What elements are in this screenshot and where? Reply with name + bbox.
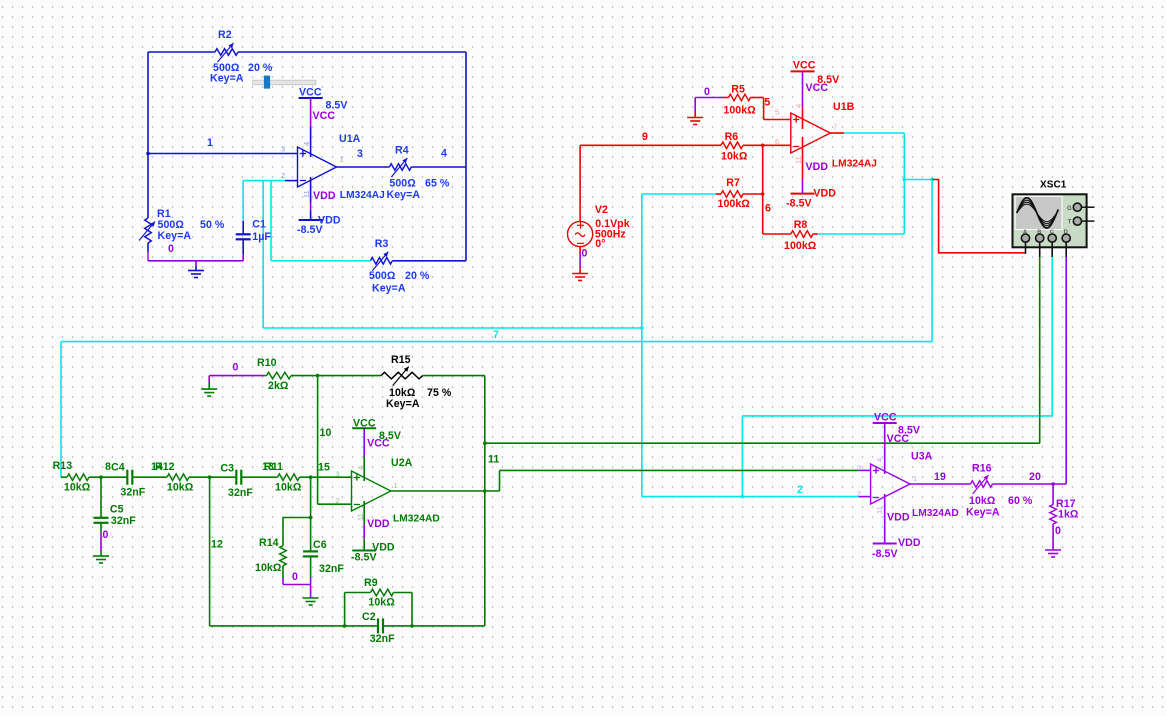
svg-text:4: 4: [794, 104, 803, 108]
scope waveform: [1017, 198, 1059, 228]
wire node12 riser: [209, 477, 211, 626]
svg-text:R5: R5: [731, 84, 745, 96]
wire node10 riser: [318, 376, 352, 505]
svg-text:4: 4: [875, 458, 884, 462]
wire U3A -input stub: [859, 496, 871, 498]
wire net2 U1A minus line: [243, 180, 297, 182]
resistor R14: [280, 518, 287, 579]
wire net2 riser to R3 row: [270, 181, 272, 261]
svg-text:R8: R8: [794, 219, 808, 231]
svg-text:V2: V2: [595, 204, 608, 216]
svg-text:19: 19: [934, 471, 946, 483]
svg-text:Key=A: Key=A: [372, 283, 406, 295]
scope terminal G: [1067, 203, 1095, 212]
svg-text:0: 0: [103, 529, 109, 541]
capacitor C3: [235, 470, 237, 485]
svg-text:1kΩ: 1kΩ: [1058, 509, 1079, 521]
junction scope B tap: [483, 441, 487, 445]
svg-text:U3A: U3A: [911, 451, 933, 463]
label VDD U2A: [351, 542, 395, 564]
wire node6 vertical: [762, 145, 764, 234]
svg-text:15: 15: [318, 462, 330, 474]
svg-text:10: 10: [320, 427, 332, 439]
VCC pin wire U1B: [802, 71, 804, 129]
wire U2A output: [391, 490, 500, 492]
wire net 0 bottom purple: [148, 260, 243, 262]
svg-text:C6: C6: [313, 539, 327, 551]
wire net2 scope C riser: [741, 416, 743, 497]
svg-text:Key=A: Key=A: [386, 398, 420, 410]
svg-text:4: 4: [302, 142, 311, 146]
wire R13 left: [61, 476, 67, 478]
svg-text:-8.5V: -8.5V: [786, 198, 812, 210]
svg-text:20 %: 20 %: [248, 62, 273, 74]
wire C3 to R11: [242, 476, 277, 478]
svg-text:10kΩ: 10kΩ: [969, 495, 996, 507]
svg-text:VCC: VCC: [353, 418, 376, 430]
label C6: [313, 539, 344, 575]
svg-text:R14: R14: [259, 537, 279, 549]
svg-text:R2: R2: [218, 29, 232, 41]
wire R3 left cyan to net2 riser: [271, 260, 370, 262]
svg-text:9: 9: [642, 131, 648, 143]
label R15: [386, 354, 452, 410]
ground R17: [1045, 549, 1061, 551]
svg-text:11: 11: [875, 506, 884, 514]
svg-text:VDD: VDD: [806, 161, 829, 173]
label VDD U3A: [872, 537, 921, 560]
svg-text:1µF: 1µF: [252, 231, 271, 243]
svg-text:R15: R15: [391, 354, 411, 366]
VDD bar U1B: [791, 193, 815, 195]
svg-text:R4: R4: [395, 145, 409, 157]
svg-text:32nF: 32nF: [111, 515, 136, 527]
svg-text:32nF: 32nF: [370, 633, 395, 645]
resistor R13: [67, 474, 89, 481]
resistor R8: [791, 231, 813, 238]
wire U3A output to R16: [910, 483, 971, 485]
resistor R7: [716, 191, 763, 198]
svg-text:0: 0: [704, 86, 710, 98]
wire U3A +input stub: [859, 469, 871, 471]
label R10: [257, 357, 289, 392]
junction node 15: [309, 475, 313, 479]
svg-text:C3: C3: [220, 463, 234, 475]
svg-text:B: B: [1037, 230, 1041, 236]
resistor R16 (potentiometer): [971, 475, 993, 494]
svg-text:R12: R12: [155, 461, 175, 473]
capacitor C5: [94, 477, 109, 556]
svg-text:500Ω: 500Ω: [369, 270, 396, 282]
label R11 with net 13: [262, 461, 302, 494]
wire R8 right cyan: [813, 233, 905, 235]
VDD bar U3A: [873, 543, 897, 545]
scope terminal D with stub: [1062, 230, 1070, 257]
label C3: [220, 463, 253, 500]
VDD pin wire U1A: [310, 177, 312, 220]
wire node11 long horizontal to U3A: [500, 469, 859, 471]
svg-text:Key=A: Key=A: [210, 73, 244, 85]
wire node15 to R14: [283, 517, 311, 519]
svg-text:D: D: [1064, 230, 1068, 236]
label R1: [157, 208, 225, 242]
svg-text:1: 1: [913, 474, 917, 483]
svg-text:11: 11: [794, 156, 803, 164]
capacitor C1: [236, 181, 251, 261]
VCC bar U3A: [873, 422, 897, 424]
resistor R2 (potentiometer) on top wire: [215, 43, 238, 62]
svg-text:Key=A: Key=A: [158, 230, 192, 242]
wire net2 to U3A -input: [642, 496, 859, 498]
wire U1A output to R4: [337, 166, 390, 168]
wire net2 cyan to R7: [642, 193, 716, 195]
scope terminal T: [1068, 217, 1095, 226]
junction node 10: [316, 374, 320, 378]
oscilloscope XSC1: [1013, 194, 1087, 247]
wire scope D vertical: [1065, 257, 1067, 484]
svg-text:R7: R7: [726, 177, 740, 189]
wire net0 under R14 C6: [283, 578, 311, 598]
wire net 1 to U1A +input: [148, 153, 298, 155]
svg-text:10kΩ: 10kΩ: [368, 597, 395, 609]
op-amp U1A: [298, 147, 337, 187]
svg-text:0: 0: [168, 243, 174, 255]
junction net7 at x932: [930, 178, 934, 182]
svg-text:VDD: VDD: [313, 190, 336, 202]
op-amp U3A: [871, 464, 910, 504]
svg-text:LM324AD: LM324AD: [912, 508, 959, 519]
svg-text:2: 2: [857, 489, 861, 498]
svg-text:7: 7: [833, 123, 837, 132]
svg-text:3: 3: [857, 463, 861, 472]
svg-text:VCC: VCC: [874, 412, 897, 424]
label R8: [784, 219, 817, 252]
label R3: [369, 238, 430, 295]
source V2: [568, 145, 593, 246]
junction node 12: [208, 475, 212, 479]
wire net1 top horizontal R2 to right corner: [238, 51, 466, 53]
VDD pin wire U3A: [884, 494, 886, 544]
svg-text:6: 6: [765, 203, 771, 215]
svg-text:VCC: VCC: [299, 87, 322, 99]
svg-text:1: 1: [207, 137, 213, 149]
wire net0 to R10: [209, 376, 266, 390]
wire net1 left vertical: [147, 52, 149, 218]
label R9: [364, 577, 395, 609]
wire R13 to C4: [89, 476, 126, 478]
svg-text:VCC: VCC: [367, 438, 390, 450]
svg-text:VCC: VCC: [793, 60, 816, 72]
wire net1 top horizontal to R2 left: [148, 51, 215, 53]
label R17: [1056, 498, 1079, 521]
svg-text:-8.5V: -8.5V: [351, 551, 377, 563]
op-amp U2A: [352, 471, 391, 511]
svg-text:C2: C2: [362, 611, 376, 623]
svg-text:C: C: [1050, 230, 1054, 236]
wire net7 long horizontal: [61, 341, 932, 343]
capacitor C6: [303, 518, 318, 579]
ground C5: [93, 555, 109, 557]
svg-text:-8.5V: -8.5V: [872, 548, 898, 560]
VDD bar U2A: [352, 550, 376, 552]
wire R1 bottom lead: [147, 243, 149, 261]
capacitor C2: [377, 618, 379, 633]
svg-text:10kΩ: 10kΩ: [64, 482, 91, 494]
ground V2: [572, 273, 588, 275]
VCC pin wire U1A: [310, 98, 312, 157]
ground R5: [687, 117, 703, 119]
svg-text:50 %: 50 %: [200, 219, 225, 231]
svg-text:0°: 0°: [595, 238, 605, 250]
wire feedback riser: [484, 376, 486, 626]
svg-text:2: 2: [336, 496, 340, 505]
label R5: [723, 84, 756, 117]
wire node10 to R15: [318, 375, 381, 377]
svg-text:100kΩ: 100kΩ: [784, 240, 817, 252]
wire R6 to U1B -input: [743, 144, 791, 146]
svg-text:60 %: 60 %: [1008, 495, 1033, 507]
wire scope B horizontal: [485, 442, 1040, 444]
svg-text:1: 1: [394, 481, 398, 490]
svg-text:VDD: VDD: [898, 537, 921, 549]
junction R9 left: [343, 624, 347, 628]
svg-text:20: 20: [1029, 471, 1041, 483]
wire net 5 R5 to U1B +input: [751, 98, 791, 120]
wire R12 to C3: [189, 476, 235, 478]
svg-text:20 %: 20 %: [405, 270, 430, 282]
VCC bar U1A: [299, 97, 323, 99]
label C5: [110, 504, 136, 528]
svg-text:2kΩ: 2kΩ: [268, 380, 289, 392]
svg-text:R3: R3: [375, 238, 389, 250]
svg-text:Key=A: Key=A: [966, 507, 1000, 519]
svg-text:65 %: 65 %: [425, 178, 450, 190]
wire net2 long horizontal: [263, 327, 642, 329]
label VCC U1A: [299, 87, 348, 112]
scope terminal A with stub: [1021, 230, 1029, 254]
svg-text:U1A: U1A: [339, 133, 361, 145]
svg-text:LM324AD: LM324AD: [393, 514, 440, 525]
svg-text:VDD: VDD: [813, 188, 836, 200]
junction node15 R14/C6: [309, 516, 313, 520]
svg-text:500Ω: 500Ω: [389, 178, 416, 190]
svg-text:R16: R16: [972, 463, 992, 475]
svg-text:10kΩ: 10kΩ: [255, 562, 282, 574]
svg-text:11: 11: [488, 454, 499, 466]
svg-text:R13: R13: [53, 460, 73, 472]
svg-text:VCC: VCC: [313, 110, 336, 122]
svg-text:1: 1: [340, 155, 344, 164]
label V2: [595, 204, 630, 250]
label VDD U1A: [297, 215, 341, 237]
wire node15 riser down: [310, 477, 312, 517]
slider control for R2: [253, 76, 316, 89]
label R12 with net 14: [151, 461, 194, 494]
svg-text:32nF: 32nF: [319, 563, 344, 575]
scope terminal B with stub: [1036, 230, 1044, 257]
VDD bar U1A: [299, 219, 323, 221]
svg-text:10kΩ: 10kΩ: [275, 482, 302, 494]
svg-text:C5: C5: [110, 504, 124, 516]
svg-text:R9: R9: [364, 577, 378, 589]
capacitor C4: [126, 470, 128, 485]
label C1: [252, 218, 271, 243]
resistor R17: [1050, 484, 1057, 550]
svg-text:3: 3: [357, 148, 363, 160]
label R14: [255, 537, 282, 574]
wire net7 branch to scope A: [904, 179, 932, 181]
svg-text:LM324AJ: LM324AJ: [340, 190, 385, 201]
svg-text:100kΩ: 100kΩ: [718, 198, 751, 210]
junction net2 scope C branch: [741, 495, 745, 499]
svg-text:2: 2: [797, 484, 803, 496]
wire net2 long riser down: [262, 181, 264, 328]
label R2: [210, 29, 273, 85]
label R13: [53, 460, 91, 494]
ground R14 C6: [303, 597, 319, 599]
svg-text:Key=A: Key=A: [387, 189, 421, 201]
junction net7 branch: [903, 178, 907, 182]
wire net7 riser down to long run: [931, 180, 933, 342]
VCC pin wire U2A: [363, 428, 365, 481]
resistor R12: [167, 474, 189, 481]
label VCC U3A: [874, 412, 920, 437]
svg-text:R11: R11: [264, 461, 283, 473]
svg-text:11: 11: [302, 190, 311, 198]
resistor R1 (potentiometer): [139, 218, 155, 243]
svg-text:A: A: [1023, 230, 1027, 236]
wire R15 to feedback riser: [423, 375, 485, 377]
svg-text:U1B: U1B: [833, 101, 855, 113]
junction node 6 top: [761, 144, 765, 148]
svg-text:G: G: [1067, 206, 1072, 212]
label VCC U1B: [793, 60, 839, 86]
label R6: [721, 131, 748, 163]
junction R9 right: [410, 624, 414, 628]
svg-text:0: 0: [1055, 525, 1061, 537]
svg-text:2: 2: [281, 171, 285, 180]
svg-text:0: 0: [292, 571, 298, 583]
wire node6 to R8: [763, 233, 791, 235]
svg-text:-8.5V: -8.5V: [297, 224, 323, 236]
scope terminal C with stub: [1048, 230, 1056, 257]
svg-text:0: 0: [582, 248, 588, 260]
svg-text:0: 0: [233, 362, 239, 374]
svg-text:3: 3: [281, 145, 285, 154]
junction node 1: [146, 152, 150, 156]
label R7: [718, 177, 751, 210]
svg-text:32nF: 32nF: [120, 487, 145, 499]
ground R10: [201, 388, 217, 390]
wire node11 step up: [499, 470, 501, 491]
resistor R3 (potentiometer): [370, 252, 392, 271]
VCC pin wire U3A: [884, 423, 886, 474]
wire bottom feedback right: [384, 625, 485, 627]
label R16: [966, 463, 1033, 519]
wire R4 to right vertical: [411, 166, 466, 168]
svg-text:5: 5: [764, 97, 770, 109]
label C4 with net 8: [105, 461, 146, 499]
label VCC U2A: [353, 418, 401, 443]
svg-text:VCC: VCC: [887, 433, 910, 445]
junction R17 tap: [1051, 482, 1055, 486]
ground U1A: [188, 270, 204, 272]
svg-text:6: 6: [775, 137, 779, 146]
wire net2 scope C horizontal: [742, 415, 1052, 417]
svg-text:VDD: VDD: [887, 512, 910, 524]
svg-text:R6: R6: [725, 131, 739, 143]
resistor R11: [278, 474, 300, 481]
resistor R5: [729, 94, 751, 101]
wire net0 to R5: [695, 98, 728, 118]
wire scope B vertical: [1039, 257, 1041, 443]
wire right vertical to R3: [392, 260, 466, 262]
junction C5 tap: [99, 475, 103, 479]
VCC bar U1B: [791, 70, 815, 72]
label VDD U1B: [786, 188, 836, 210]
wire net4 right vertical: [465, 52, 467, 261]
VCC bar U2A: [352, 427, 376, 429]
svg-text:U2A: U2A: [391, 457, 413, 469]
svg-text:32nF: 32nF: [228, 487, 253, 499]
svg-text:XSC1: XSC1: [1040, 180, 1067, 191]
svg-text:C1: C1: [252, 218, 266, 230]
wire net2 main riser: [641, 194, 643, 497]
resistor R10: [267, 372, 292, 379]
svg-text:C4: C4: [111, 462, 125, 474]
wire net 9 to R6: [580, 144, 721, 146]
junction R7 node6: [761, 192, 765, 196]
svg-text:4: 4: [441, 148, 447, 160]
junction net2 at R7 riser: [640, 326, 644, 330]
wire C4 to R12: [133, 476, 167, 478]
VDD pin wire U2A: [363, 501, 365, 551]
svg-text:VDD: VDD: [367, 518, 390, 530]
wire V2 to ground: [579, 247, 581, 274]
svg-text:12: 12: [211, 539, 223, 551]
label C2: [362, 611, 395, 645]
svg-text:VCC: VCC: [806, 82, 829, 94]
resistor R9 parallel loop: [345, 589, 412, 626]
resistor R4 (potentiometer): [389, 158, 411, 177]
svg-text:LM324AJ: LM324AJ: [832, 159, 877, 170]
svg-text:R10: R10: [257, 357, 277, 369]
wire net7 left riser to R13: [60, 342, 62, 478]
svg-text:10kΩ: 10kΩ: [721, 151, 748, 163]
wire R16 to corner: [993, 483, 1067, 485]
label R4: [387, 145, 450, 202]
wire U1B output: [830, 132, 904, 134]
svg-text:10kΩ: 10kΩ: [167, 482, 194, 494]
svg-text:100kΩ: 100kΩ: [723, 105, 756, 117]
wire net7 vertical at x904: [903, 133, 905, 234]
svg-text:5: 5: [775, 108, 779, 117]
wire R11 to U2A +input: [300, 476, 352, 478]
VDD pin wire U1B: [802, 137, 804, 194]
wire net2 scope C vertical: [1051, 257, 1053, 416]
wire bottom feedback left: [210, 625, 377, 627]
junction node 11 at feedback riser: [483, 489, 487, 493]
resistor R6: [721, 142, 743, 149]
svg-text:7: 7: [493, 329, 499, 341]
resistor R15 (potentiometer, black): [381, 367, 423, 386]
svg-text:T: T: [1068, 220, 1072, 226]
svg-text:75 %: 75 %: [427, 387, 452, 399]
op-amp U1B: [791, 113, 831, 153]
wire scope A red: [932, 180, 1025, 253]
wire R10 to junction: [291, 375, 318, 377]
svg-text:3: 3: [336, 470, 340, 479]
